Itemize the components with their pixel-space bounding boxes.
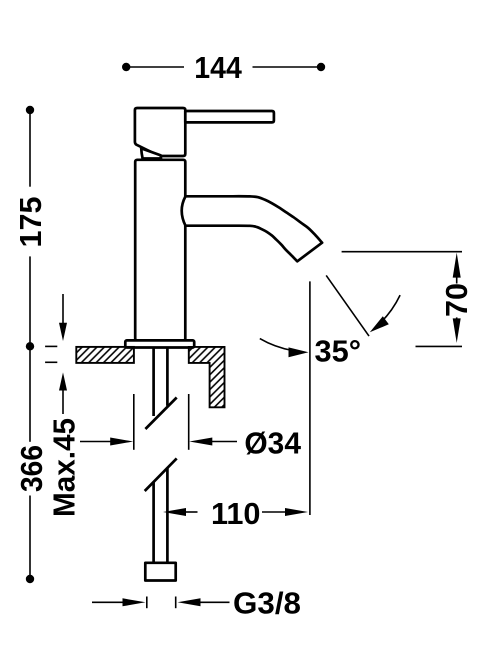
svg-text:Ø34: Ø34 (244, 427, 301, 461)
angle slant line (326, 275, 369, 336)
svg-text:35°: 35° (315, 335, 362, 369)
break line upper (145, 398, 176, 430)
deck right L (hatched) (189, 347, 225, 407)
dim Max.45 dash top (45, 345, 57, 347)
base flange (125, 340, 194, 347)
dim 70 lower arrowhead (453, 318, 461, 343)
faucet body column (135, 160, 185, 341)
dim 144 line left (126, 66, 184, 68)
dim 110 left line (186, 511, 198, 513)
break line lower (145, 458, 177, 491)
dim Max.45 lower line (62, 391, 64, 415)
dim 366 line upper (29, 346, 31, 442)
dim 110 right arrowhead (285, 508, 308, 516)
dim 144 dot left (122, 63, 130, 71)
dim 70 upper arrowhead (453, 253, 461, 278)
dim O34 extension line right (188, 394, 190, 450)
dim 175 line lower (29, 256, 31, 346)
shank lower left line (152, 482, 155, 563)
shank upper right line (166, 348, 169, 406)
svg-text:G3/8: G3/8 (233, 586, 301, 620)
supply end cap (145, 563, 175, 581)
dim O34 right arrow line (212, 441, 237, 443)
dim 70 top reference line (342, 251, 462, 253)
dim G3/8 right arrow line (200, 601, 230, 603)
svg-text:175: 175 (14, 196, 48, 247)
dim G3/8 tick right (175, 597, 177, 609)
dim G3/8 tick left (146, 597, 148, 609)
dim 175 dot top (26, 106, 34, 114)
handle lever (185, 111, 274, 122)
handle block (135, 108, 185, 156)
angle arc right (374, 295, 400, 329)
dim Max.45 lower arrowhead (59, 372, 67, 390)
dim O34 left arrowhead (110, 438, 133, 446)
shank lower right line (166, 468, 169, 563)
dim 144 dot right (317, 63, 325, 71)
dim O34 right arrowhead (189, 438, 212, 446)
spout (182, 196, 322, 261)
svg-text:366: 366 (15, 445, 49, 492)
dim 366 dot bottom (26, 575, 34, 583)
dim 70 lower stub (456, 317, 458, 319)
shank upper left line (152, 348, 155, 417)
dim 366 line lower (29, 496, 31, 580)
handle skirt wedge (141, 148, 161, 158)
dim 110 right line (262, 511, 286, 513)
dim G3/8 right arrowhead (178, 598, 201, 606)
svg-text:70: 70 (440, 283, 474, 317)
svg-text:Max.45: Max.45 (47, 418, 81, 517)
dim 70 upper stub (456, 277, 458, 284)
angle vertical extension line (309, 281, 311, 515)
dim 70 bottom reference line (416, 345, 463, 347)
deck left (hatched) (76, 347, 134, 363)
angle arc right arrowhead (370, 316, 389, 332)
angle arc left arrowhead (289, 347, 309, 357)
dim 366 shared dot (26, 342, 34, 350)
dim G3/8 left arrowhead (123, 598, 146, 606)
dim 110 left arrowhead (163, 508, 186, 516)
svg-text:110: 110 (211, 497, 261, 531)
dim O34 extension line left (133, 394, 135, 450)
dim Max.45 dash bottom (45, 361, 57, 363)
svg-text:144: 144 (194, 51, 242, 85)
dim G3/8 left arrow line (92, 601, 123, 603)
dim Max.45 upper line (62, 294, 64, 323)
dim 175 line upper (29, 110, 31, 187)
dim Max.45 upper arrowhead (59, 323, 67, 341)
dim 144 line right (253, 66, 322, 68)
dim O34 left arrow line (80, 441, 111, 443)
angle arc left (260, 339, 293, 351)
